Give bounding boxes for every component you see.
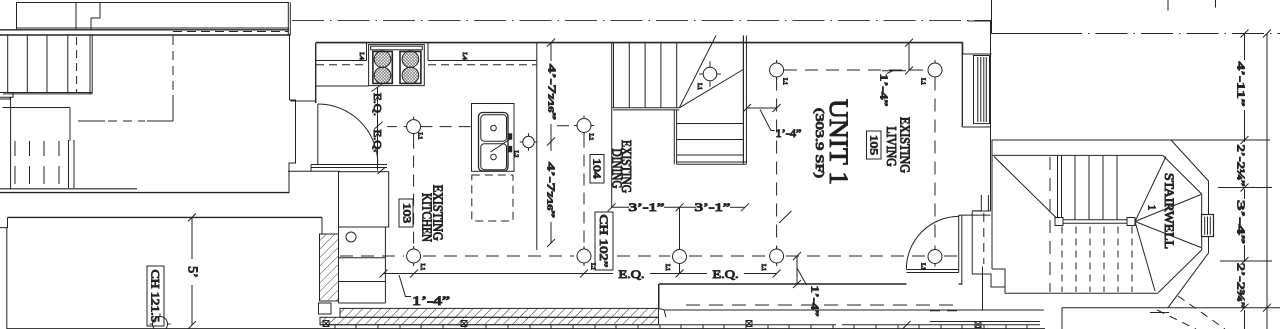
dim 1'-4" left of boundary bbox=[747, 107, 777, 109]
dashed line lower rooms bbox=[686, 304, 955, 306]
lower room right bbox=[1062, 307, 1280, 309]
svg-text:CH 102”: CH 102” bbox=[597, 215, 611, 268]
stair east wall bbox=[742, 36, 744, 164]
svg-text:L1: L1 bbox=[419, 264, 425, 271]
svg-text:1’-4”: 1’-4” bbox=[776, 126, 802, 140]
hidden dashed in wall bbox=[173, 31, 288, 33]
big diagonal bbox=[994, 157, 1057, 219]
dim line 2 overall bbox=[1266, 34, 1268, 329]
svg-text:4’-11”: 4’-11” bbox=[1235, 62, 1247, 107]
treads bbox=[613, 43, 615, 108]
step to stairwell bbox=[972, 274, 1005, 293]
bay walls inner bbox=[1163, 155, 1202, 214]
svg-text:L1: L1 bbox=[417, 133, 423, 140]
svg-text:L1: L1 bbox=[920, 263, 926, 270]
light L1 stair bbox=[703, 67, 717, 81]
dim line 1 bbox=[1244, 34, 1246, 61]
light L1 boundary NE bbox=[928, 63, 942, 77]
wall right stub bbox=[321, 217, 323, 234]
dash row2 bbox=[340, 255, 404, 257]
dashed partition bbox=[108, 120, 145, 122]
door D1 swing bbox=[318, 104, 378, 164]
dash vertical dining bbox=[583, 136, 585, 248]
north wall inner bbox=[992, 154, 1163, 156]
dim 4'-7 7/16 chain bbox=[550, 43, 552, 61]
wall bbox=[10, 97, 12, 189]
svg-text:L4: L4 bbox=[358, 52, 365, 60]
svg-text:L1: L1 bbox=[760, 264, 766, 271]
fridge bbox=[339, 172, 389, 227]
svg-text:5’: 5’ bbox=[185, 266, 200, 278]
lower stair treads bbox=[15, 140, 74, 188]
svg-text:L1: L1 bbox=[590, 263, 596, 270]
landing line bbox=[612, 107, 680, 109]
wall under door bbox=[311, 164, 387, 166]
wall band mid-left bbox=[0, 188, 137, 190]
party wall east edge bbox=[287, 3, 289, 36]
svg-text:3’-1”: 3’-1” bbox=[695, 200, 731, 214]
light L1 dining row1 bbox=[577, 119, 591, 133]
closet edge bbox=[673, 110, 675, 164]
lower run bbox=[677, 123, 744, 125]
door D2 swing bbox=[906, 216, 959, 269]
svg-text:UNIT 1: UNIT 1 bbox=[824, 99, 853, 185]
svg-text:L1: L1 bbox=[696, 83, 702, 90]
party wall right w/ centerline bbox=[991, 0, 993, 34]
wall unit west upper bbox=[315, 43, 317, 103]
vertical ext through light bbox=[679, 207, 681, 249]
stair dashed line bbox=[76, 37, 78, 93]
door D2 leaf bbox=[906, 269, 958, 271]
svg-text:L1: L1 bbox=[664, 264, 670, 271]
dim 3'-1 x2 bbox=[612, 206, 629, 208]
svg-text:L1: L1 bbox=[782, 78, 788, 85]
EQ dim line bottom bbox=[384, 273, 614, 275]
centerline dash-dot bbox=[292, 19, 991, 21]
dashed base cabinet bbox=[472, 175, 513, 221]
faucet lever bbox=[491, 140, 510, 153]
wall left bbox=[6, 228, 8, 329]
dimension 5' bbox=[191, 217, 193, 259]
wall band top-left bbox=[16, 27, 289, 29]
X anchor boxes bbox=[323, 321, 981, 328]
kitchen east partition bbox=[536, 43, 538, 250]
sink S1 bbox=[479, 113, 509, 172]
svg-text:L1: L1 bbox=[920, 78, 926, 85]
wall bbox=[69, 108, 71, 142]
svg-text:E.Q.: E.Q. bbox=[619, 267, 645, 281]
svg-text:1’-4”: 1’-4” bbox=[878, 74, 890, 107]
svg-text:E.Q.: E.Q. bbox=[713, 267, 739, 281]
dim 1'-4" top right bbox=[908, 43, 910, 71]
svg-text:3’-4”: 3’-4” bbox=[1235, 200, 1247, 244]
light L1 boundary NW bbox=[770, 63, 784, 77]
chimney hatch bbox=[320, 234, 339, 301]
svg-text:2’-2¼”: 2’-2¼” bbox=[1235, 145, 1247, 187]
wall south bbox=[659, 283, 906, 285]
boundary right bbox=[934, 78, 936, 249]
svg-text:2’-2¾”: 2’-2¾” bbox=[1235, 263, 1247, 309]
range R1 bbox=[369, 45, 425, 86]
dashed boundary vertical bbox=[172, 36, 174, 95]
bottom wall bbox=[1005, 292, 1158, 294]
ticks bbox=[1241, 30, 1249, 38]
west boundary wall of unit1 block bbox=[289, 35, 291, 100]
svg-text:E.Q.: E.Q. bbox=[371, 130, 383, 153]
label CH 102 bbox=[595, 212, 613, 270]
upper treads bbox=[1057, 155, 1059, 219]
svg-text:3’-1”: 3’-1” bbox=[629, 200, 665, 214]
window W2 bay bbox=[1202, 215, 1214, 237]
svg-text:LIVING: LIVING bbox=[883, 127, 898, 167]
light over sink bbox=[523, 136, 534, 147]
svg-text:(303.9 SF): (303.9 SF) bbox=[813, 108, 827, 178]
winder lines bbox=[679, 36, 716, 108]
base counter west bbox=[338, 227, 340, 303]
extension lines bbox=[1218, 187, 1272, 189]
stair bottom wall bbox=[3, 92, 92, 94]
boundary left bbox=[776, 78, 778, 249]
dashed door swings SE bbox=[1178, 296, 1225, 329]
wire bbox=[75, 3, 77, 30]
north wall outer bbox=[992, 139, 1271, 141]
light L1 row2 kitchen bbox=[407, 249, 421, 263]
light L1 kitchen row1 bbox=[407, 120, 421, 134]
svg-text:1’-4”: 1’-4” bbox=[809, 286, 821, 317]
node step bbox=[0, 217, 8, 227]
wire bbox=[16, 3, 18, 30]
door header bbox=[291, 100, 316, 102]
wall top bbox=[8, 216, 323, 218]
dashed lower treads bbox=[1049, 157, 1051, 292]
stair stringer bbox=[89, 35, 91, 94]
light L1 row2 center bbox=[673, 250, 687, 264]
rail bbox=[1055, 219, 1131, 221]
svg-text:KITCHEN: KITCHEN bbox=[419, 193, 434, 242]
svg-text:E.Q.: E.Q. bbox=[371, 93, 383, 116]
counter edge bbox=[316, 85, 369, 87]
stair treads upper-left bbox=[7, 35, 9, 93]
west wall bbox=[991, 140, 993, 269]
light L1 row2 east-boundary bbox=[928, 250, 942, 264]
hatched wall band 1 bbox=[340, 308, 659, 317]
svg-text:103: 103 bbox=[401, 203, 413, 224]
svg-text:1: 1 bbox=[1146, 205, 1157, 210]
stair west edge bbox=[611, 43, 613, 208]
dash vertical to row2 bbox=[413, 137, 415, 247]
svg-text:L2: L2 bbox=[513, 151, 519, 158]
svg-text:L1: L1 bbox=[588, 134, 594, 141]
door D1 leaf bbox=[317, 104, 319, 164]
hatched wall band 2 bbox=[320, 317, 659, 324]
wall unit north bbox=[316, 42, 963, 44]
bottom strip bbox=[320, 324, 836, 326]
appliance circle bbox=[346, 232, 356, 242]
svg-text:4’-77⁄16”: 4’-77⁄16” bbox=[545, 162, 557, 218]
boundary top bbox=[784, 69, 927, 71]
dim EQ vertical bbox=[377, 88, 379, 171]
wall east bbox=[961, 43, 963, 127]
svg-text:104: 104 bbox=[591, 159, 603, 180]
ceiling fixture circle bbox=[153, 317, 168, 329]
label CH 121.5 bbox=[147, 266, 164, 326]
wire bbox=[78, 120, 105, 122]
svg-text:1’-4”: 1’-4” bbox=[412, 293, 450, 308]
leader 1'-4" kitchen bbox=[399, 275, 411, 297]
bay walls outer bbox=[1171, 140, 1209, 215]
svg-text:DINING: DINING bbox=[609, 149, 624, 189]
corridor walls bbox=[971, 211, 973, 274]
svg-text:L4: L4 bbox=[461, 52, 468, 60]
upper cabinet right bbox=[427, 43, 429, 61]
jambs bbox=[958, 215, 960, 272]
node jog bbox=[91, 3, 100, 30]
wall bbox=[3, 107, 71, 109]
dashed stair door bbox=[983, 213, 985, 264]
fan lines bbox=[1135, 157, 1166, 222]
light L1 row2 dining bbox=[577, 249, 591, 263]
svg-text:4’-77⁄16”: 4’-77⁄16” bbox=[546, 64, 558, 120]
svg-text:105: 105 bbox=[868, 135, 880, 156]
wire bbox=[16, 2, 289, 4]
burners bbox=[374, 51, 391, 68]
light L1 row2 west-boundary bbox=[770, 249, 784, 263]
dim 1'-4" bottom center bbox=[796, 256, 798, 284]
band ends bbox=[658, 284, 660, 310]
node jog left bbox=[0, 93, 13, 98]
sink counter bbox=[472, 104, 515, 172]
upper cabinet left bbox=[316, 60, 367, 62]
window W1 bbox=[974, 56, 990, 124]
south wall line right bbox=[665, 309, 1044, 311]
svg-text:STAIRWELL: STAIRWELL bbox=[1162, 173, 1177, 249]
kitchen light row1 dash bbox=[421, 126, 472, 128]
